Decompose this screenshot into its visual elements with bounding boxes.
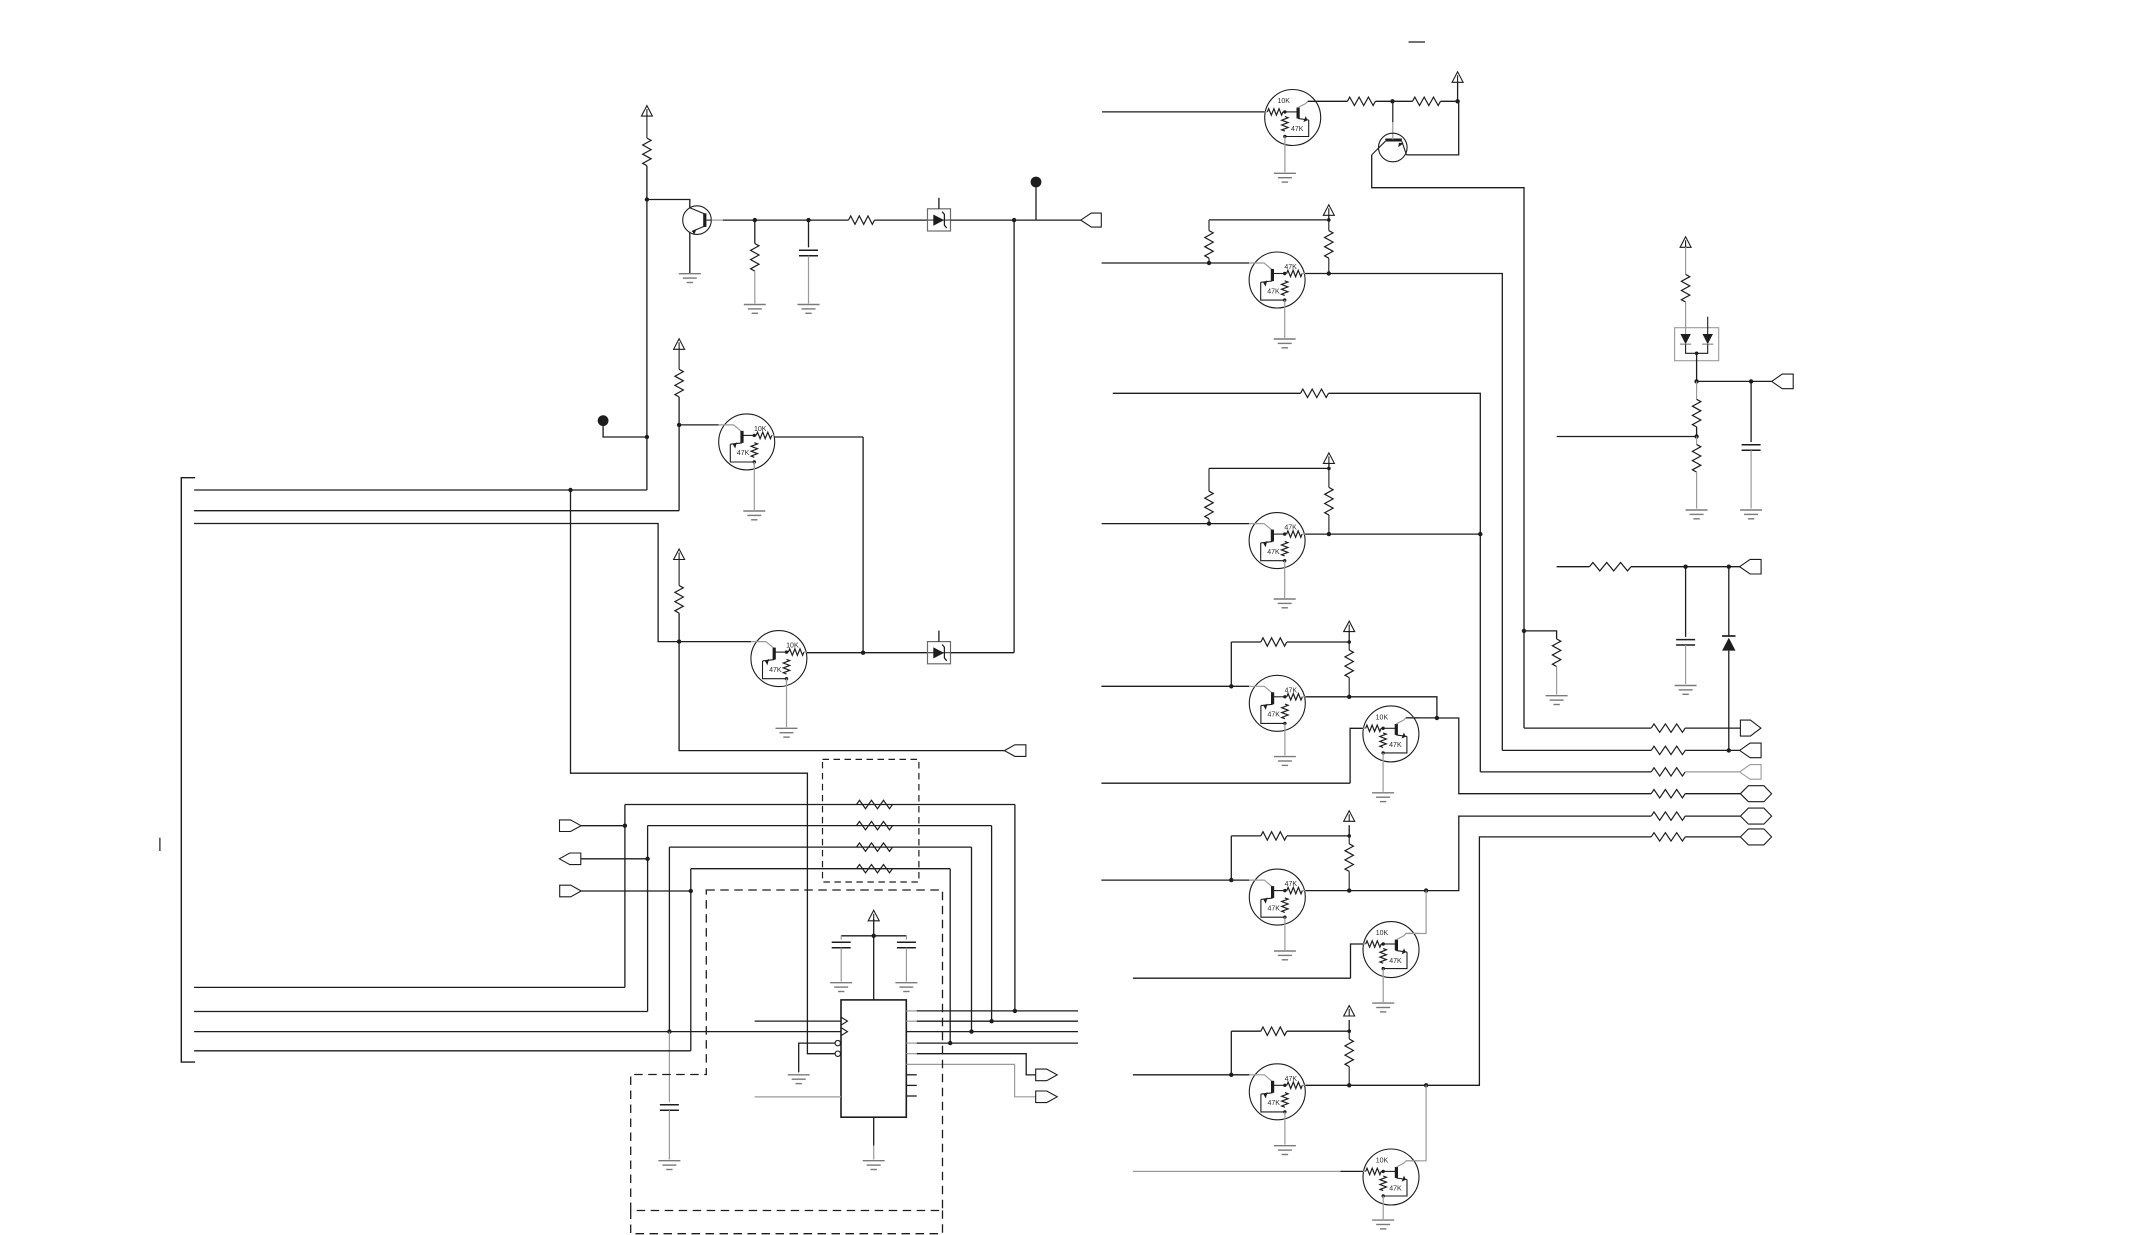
- capacitor C3: [832, 941, 851, 943]
- wire R5 to node: [678, 613, 680, 642]
- IC U1: [841, 1000, 906, 1117]
- oscillator module dashed outline: [631, 890, 943, 1211]
- digital transistor Q8 (pre-biased, 47K/47K): [1249, 513, 1305, 569]
- digital transistor Q12 (pre-biased, 10K/47K): [1363, 922, 1419, 978]
- node Q7 output pull-up: [1327, 271, 1331, 275]
- ground Q10: [1372, 792, 1394, 794]
- wire VCC7 stem: [1328, 463, 1330, 468]
- svg-text:10K: 10K: [754, 426, 767, 433]
- capacitor C2: [660, 1104, 679, 1106]
- wire VCC9 stem: [1348, 825, 1350, 836]
- wire Q7 emitter ground: [1284, 308, 1286, 338]
- wire input line F: [1133, 977, 1351, 979]
- connector pin P12: [1740, 808, 1771, 824]
- resistor R22: [1651, 768, 1685, 776]
- wire C rail right: [1287, 641, 1349, 643]
- svg-text:47K: 47K: [1267, 712, 1280, 719]
- svg-text:47K: 47K: [1285, 881, 1298, 888]
- power symbol VCC1: [641, 106, 652, 117]
- resistor R11: [1208, 468, 1210, 491]
- wire input line H: [1133, 1170, 1341, 1172]
- node C1 branch: [806, 218, 810, 222]
- resistor R1: [646, 115, 648, 139]
- wire R29 to P15: [1631, 566, 1740, 568]
- connector pin P10: [1740, 765, 1762, 780]
- power symbol VCC8: [1344, 621, 1355, 632]
- wire row2: [1502, 749, 1651, 751]
- wire R4 to node and line2 corner: [678, 397, 680, 511]
- node diode D2 anode: [1727, 748, 1731, 752]
- resistor RP3: [857, 843, 893, 851]
- wire C3 to ground: [840, 948, 842, 982]
- diode D1a: [1680, 334, 1690, 344]
- ground C1: [798, 304, 820, 306]
- wire C5 lead: [1750, 381, 1752, 442]
- digital transistor Q4 (pre-biased, 10K/47K): [751, 631, 807, 687]
- wire input line G: [1133, 1074, 1249, 1076]
- wire resonator rail: [841, 935, 906, 937]
- digital transistor Q7 (pre-biased, 47K/47K): [1249, 252, 1305, 308]
- wire bus line2 from bracket: [194, 510, 679, 512]
- node output vertical branch: [1012, 218, 1016, 222]
- node G rail: [1347, 1029, 1351, 1033]
- node connector P5 junction: [689, 889, 693, 893]
- wire E riser: [1230, 836, 1232, 880]
- wire lineB vertical V2: [647, 826, 649, 1012]
- wire VCC4 to node: [873, 919, 875, 936]
- wire IC pin5 to P6: [906, 1053, 916, 1055]
- wire G rail left: [1231, 1030, 1261, 1032]
- wire D1 to divider node: [1696, 353, 1698, 381]
- ground R28: [1686, 509, 1708, 511]
- wire bus line1 from bracket: [194, 489, 647, 491]
- svg-text:10K: 10K: [786, 643, 799, 650]
- power symbol VCC11: [1680, 237, 1691, 248]
- wire node to Q3 collector: [679, 424, 719, 426]
- wire output net vertical to VR2 line: [1013, 220, 1015, 653]
- wire Q6 emitter to VCC: [1407, 101, 1459, 155]
- IC inverted pin bubble1: [835, 1040, 840, 1045]
- power symbol VCC6: [1323, 205, 1334, 216]
- node connector P4 junction: [645, 857, 649, 861]
- node QD collector: [1435, 716, 1439, 720]
- node R2 branch: [753, 218, 757, 222]
- connector pin P9: [1740, 743, 1762, 758]
- node Q9 output pull-up: [1347, 695, 1351, 699]
- wire Q11 output to row5 feeder: [1305, 816, 1651, 891]
- resistor R18: [1261, 1027, 1287, 1035]
- wire IC pin line4: [906, 1042, 916, 1044]
- wire row3 to P10: [1685, 771, 1740, 773]
- svg-text:10K: 10K: [1376, 714, 1389, 721]
- capacitor C5: [1742, 444, 1761, 446]
- wire line1 branch to IC reset pin: [571, 490, 836, 1054]
- wire P4 to V2: [581, 858, 648, 860]
- resistor R8: [1552, 639, 1560, 667]
- bus bracket: [181, 478, 195, 1062]
- wire VCC rail B: [1209, 467, 1329, 469]
- wire Q11 emitter ground: [1284, 925, 1286, 950]
- resistor R7: [1413, 97, 1441, 105]
- IC pin stub1: [906, 1074, 916, 1076]
- wire IC pin line2: [906, 1020, 916, 1022]
- wire R7 to VCC node: [1441, 100, 1458, 102]
- transistor Q6 (PNP): [1372, 133, 1407, 162]
- svg-text:10K: 10K: [1277, 98, 1290, 105]
- wire branch to Q12 collector: [1406, 891, 1426, 934]
- wire TP2 to line1 vertical: [603, 426, 647, 437]
- node Q11 output pull-up: [1347, 888, 1351, 892]
- wire VR1 to output node: [951, 219, 1081, 221]
- wire input line A: [1102, 262, 1250, 264]
- wire row1: [1524, 727, 1651, 729]
- transistor Q1: [683, 206, 712, 235]
- wire lineD vertical V4: [690, 869, 692, 1051]
- connector pin P8: [1740, 720, 1761, 736]
- wire D riser: [1350, 728, 1363, 783]
- wire D2 anode to row2: [1728, 651, 1730, 751]
- wire Q12 emitter ground: [1382, 978, 1384, 1003]
- connector pin P13: [1740, 829, 1771, 845]
- svg-text:47K: 47K: [737, 450, 750, 457]
- resistor R15: [1348, 642, 1350, 650]
- node C input: [1229, 684, 1233, 688]
- wire bus lineA: [194, 986, 625, 988]
- node RP1 to pin line1: [1013, 1009, 1017, 1013]
- wire Q10 collector link: [1406, 717, 1437, 719]
- wire row1 to P8: [1685, 727, 1740, 729]
- wire Q13 output to row6 feeder: [1305, 837, 1651, 1085]
- top dash mark: [1409, 41, 1426, 43]
- wire Q14 emitter ground: [1382, 1205, 1384, 1219]
- wire to Q1 collector: [647, 200, 690, 208]
- wire C5 to ground: [1750, 450, 1752, 508]
- resistor R20: [1651, 724, 1685, 732]
- wire VCC rail to IC top: [873, 936, 875, 1000]
- resistor R14: [1261, 638, 1287, 646]
- ground C5: [1740, 509, 1762, 511]
- wire RP1 vertical to IC pin line: [1014, 805, 1016, 1011]
- wire bus lineB: [194, 1011, 647, 1013]
- wire input line E: [1101, 879, 1249, 881]
- wire IC pin input: [755, 1020, 841, 1022]
- wire row4 to P11: [1685, 793, 1740, 795]
- wire VCC5 stem: [1457, 82, 1459, 102]
- svg-text:10K: 10K: [1376, 930, 1389, 937]
- resistor R25: [1651, 833, 1685, 841]
- node T2 collector pull-up: [677, 639, 681, 643]
- resistor RP2: [857, 821, 893, 829]
- wire net393 to row3 feeder: [1329, 393, 1481, 772]
- power symbol VCC9: [1344, 811, 1355, 822]
- connector pin P3: [560, 820, 582, 832]
- wire Q3 emitter to ground: [753, 462, 755, 510]
- svg-text:47K: 47K: [1389, 742, 1402, 749]
- wire node to Q4 collector: [679, 641, 751, 643]
- wire lineC vertical V3: [668, 847, 670, 1032]
- wire TP1 stem: [1035, 187, 1037, 220]
- resistor RP4: [857, 865, 893, 873]
- ground Q12: [1372, 1002, 1394, 1004]
- resistor R17: [1348, 836, 1350, 844]
- wire Q13 emitter ground: [1284, 1120, 1286, 1145]
- dual diode D1 package: [1675, 328, 1719, 361]
- wire P5 to V4: [581, 890, 691, 892]
- wire C rail left: [1231, 641, 1261, 643]
- wire lineA vertical V1: [624, 805, 626, 988]
- wire input line B: [1102, 523, 1250, 525]
- resistor R24: [1651, 812, 1685, 820]
- wire Q10 emitter ground: [1382, 762, 1384, 792]
- node C rail: [1347, 640, 1351, 644]
- node QF collector branch: [1424, 888, 1428, 892]
- wire Q6 base: [1392, 101, 1394, 122]
- ground Q11: [1274, 950, 1296, 952]
- wire Q1 base output line: [712, 219, 723, 221]
- oscillator module dashed bottom strip: [631, 1211, 943, 1234]
- node A pull-up: [1207, 261, 1211, 265]
- ground R8: [1546, 695, 1568, 697]
- ground Q5: [1274, 172, 1296, 174]
- wire bus lineC: [194, 1031, 669, 1033]
- wire IC lower left pin: [755, 1096, 841, 1098]
- power symbol VCC3: [674, 549, 685, 560]
- ground C3: [830, 982, 852, 984]
- digital transistor Q5 (pre-biased, 10K/47K): [1265, 90, 1321, 146]
- node RP4 to pin line4: [948, 1041, 952, 1045]
- wire E rail left: [1231, 835, 1261, 837]
- svg-text:47K: 47K: [1389, 958, 1402, 965]
- wire row3 to pack: [669, 846, 971, 848]
- node TP2 junction: [645, 435, 649, 439]
- resistor R9: [1208, 220, 1210, 231]
- IC U1 clock pin marks: [841, 1017, 848, 1025]
- wire input line D: [1101, 782, 1350, 784]
- wire R26 to D1: [1685, 302, 1687, 334]
- ground Q9: [1274, 756, 1296, 758]
- ground Q14: [1372, 1219, 1394, 1221]
- digital transistor Q3 (pre-biased, 10K/47K): [719, 414, 775, 470]
- wire net393: [1113, 392, 1301, 394]
- wire node to R8: [1524, 631, 1557, 639]
- resistor R27: [1692, 399, 1700, 427]
- node divider top: [1694, 379, 1698, 383]
- wire input line C: [1101, 685, 1249, 687]
- wire net566: [1557, 566, 1590, 568]
- wire node to P14: [1697, 380, 1772, 382]
- wire R2 to ground: [754, 220, 756, 243]
- wire Q3 output vertical down: [862, 437, 864, 653]
- resistor R6: [1347, 97, 1375, 105]
- wire row6 to P13: [1685, 836, 1740, 838]
- node B pull-up: [1207, 521, 1211, 525]
- connector pin P5: [560, 885, 582, 897]
- IC inverted pin bubble2: [835, 1051, 840, 1056]
- wire R27 to node: [1696, 427, 1698, 437]
- wire IC bottom to ground: [873, 1117, 875, 1145]
- ground Q8: [1274, 598, 1296, 600]
- diode D2: [1722, 635, 1735, 637]
- node VCC5: [1455, 99, 1459, 103]
- svg-text:47K: 47K: [1284, 264, 1297, 271]
- surge absorber VR1: [928, 209, 951, 231]
- wire R8 to ground: [1556, 667, 1558, 695]
- wire divider to R27: [1696, 381, 1698, 399]
- resistor RP1: [857, 800, 893, 808]
- ground Q4: [776, 727, 798, 729]
- wire Q3 output to vertical: [775, 436, 863, 438]
- digital transistor Q11 (pre-biased, 47K/47K): [1249, 869, 1305, 925]
- resistor R26: [1681, 274, 1689, 302]
- surge absorber VR2: [928, 642, 951, 664]
- svg-text:47K: 47K: [1389, 1185, 1402, 1192]
- node base branch Q1: [645, 197, 649, 201]
- node Q8 output pull-up: [1327, 532, 1331, 536]
- wire V3 to C2: [668, 1032, 670, 1103]
- wire C1 lower lead: [808, 256, 810, 304]
- node D2 branch: [1727, 565, 1731, 569]
- digital transistor Q14 (pre-biased, 10K/47K): [1363, 1149, 1419, 1205]
- wire D1b cathode up: [1707, 317, 1709, 334]
- connector pin P2: [1004, 745, 1026, 757]
- node line1 branch down: [568, 488, 572, 492]
- wire C4 top lead: [905, 936, 907, 940]
- svg-text:47K: 47K: [1267, 288, 1280, 295]
- resistor R23: [1651, 790, 1685, 798]
- resistor R29: [1589, 563, 1631, 571]
- page tick mark: [159, 838, 161, 851]
- wire C3 top lead: [840, 936, 842, 940]
- node rail B right: [1327, 467, 1331, 471]
- test point TP2: [598, 415, 609, 426]
- wire row2 to pack: [648, 825, 992, 827]
- IC pin stub3: [906, 1095, 916, 1097]
- wire C riser: [1230, 642, 1232, 686]
- capacitor C1: [799, 249, 818, 251]
- capacitor C6: [1676, 639, 1695, 641]
- wire C1 upper lead: [808, 220, 810, 247]
- wire Q5 collector to R6: [1308, 100, 1348, 102]
- node R8 branch: [1522, 629, 1526, 633]
- resistor R16: [1261, 832, 1287, 840]
- wire IC pin line3: [906, 1031, 1078, 1033]
- digital transistor Q13 (pre-biased, 47K/47K): [1249, 1064, 1305, 1120]
- ground Q1: [679, 273, 701, 275]
- power symbol VCC2: [674, 339, 685, 350]
- wire VCC rail A: [1209, 219, 1329, 221]
- node rail A right: [1327, 218, 1331, 222]
- digital transistor Q10 (pre-biased, 10K/47K): [1363, 706, 1419, 762]
- wire C2 to ground: [668, 1110, 670, 1159]
- wire R1 to line1 vertical: [646, 166, 648, 490]
- wire row4 to pack: [691, 868, 950, 870]
- test point TP1: [1031, 177, 1042, 188]
- wire node to row4 feeder: [1437, 718, 1651, 794]
- wire P3 to V1: [581, 825, 625, 827]
- wire F riser: [1351, 944, 1364, 978]
- node C6 branch: [1683, 565, 1687, 569]
- svg-text:47K: 47K: [1267, 1100, 1280, 1107]
- wire divider input: [1557, 436, 1697, 438]
- svg-text:47K: 47K: [769, 667, 782, 674]
- power symbol VCC4: [868, 910, 879, 921]
- resistor pack dashed outline: [823, 759, 919, 882]
- svg-text:10K: 10K: [1376, 1158, 1389, 1165]
- node divider mid: [1694, 434, 1698, 438]
- wire RP3 vertical to IC pin line: [971, 847, 973, 1032]
- wire IC pin line1: [906, 1010, 916, 1012]
- svg-text:47K: 47K: [1284, 525, 1297, 532]
- wire bus lineD: [194, 1050, 691, 1052]
- wire row1 to pack: [625, 804, 1015, 806]
- ground IC pin: [788, 1074, 810, 1076]
- wire Q1 emitter to ground: [689, 232, 691, 273]
- power symbol VCC5: [1452, 72, 1463, 83]
- svg-text:47K: 47K: [1291, 126, 1304, 133]
- resistor R19: [1348, 1031, 1350, 1039]
- node E rail: [1347, 834, 1351, 838]
- wire Q9 output to QD collector node: [1305, 697, 1437, 718]
- node RP3 to pin line3: [969, 1029, 973, 1033]
- wire Q7 output to row2 feeder: [1305, 274, 1502, 751]
- node QH collector branch: [1424, 1083, 1428, 1087]
- ground IC: [863, 1160, 885, 1162]
- node resonator center: [872, 934, 876, 938]
- svg-text:47K: 47K: [1267, 549, 1280, 556]
- wire Q5 emitter to ground: [1284, 146, 1286, 173]
- wire bus line3 from bracket: [194, 524, 679, 642]
- wire bubble1 to ground: [799, 1043, 835, 1072]
- svg-text:47K: 47K: [1285, 687, 1298, 694]
- resistor R5: [678, 558, 680, 585]
- wire Q6 collector to row1 feeder: [1372, 155, 1524, 728]
- ground C4: [895, 982, 917, 984]
- resistor R13: [1301, 389, 1329, 397]
- wire RP2 vertical to IC pin line: [991, 826, 993, 1022]
- digital transistor Q9 (pre-biased, 47K/47K): [1249, 675, 1305, 731]
- wire D2 cathode lead: [1728, 567, 1730, 636]
- wire G rail right: [1287, 1030, 1349, 1032]
- wire Q8 emitter ground: [1284, 569, 1286, 598]
- wire R2 lower lead: [754, 271, 756, 303]
- ground Q7: [1274, 338, 1296, 340]
- node Q13 output pull-up: [1347, 1083, 1351, 1087]
- connector pin P1: [1081, 213, 1102, 227]
- wire branch to Q14 collector: [1406, 1085, 1426, 1161]
- wire VCC8 stem: [1348, 631, 1350, 642]
- diode D1b: [1703, 334, 1713, 344]
- connector pin P7: [1036, 1091, 1058, 1103]
- power symbol VCC7: [1323, 453, 1334, 464]
- wire VR2 to output vertical: [951, 652, 1014, 654]
- node E input: [1229, 878, 1233, 882]
- resistor R2: [751, 244, 759, 272]
- connector pin P6: [1036, 1069, 1058, 1081]
- wire IC pin6 to P7: [906, 1064, 1035, 1096]
- power symbol VCC10: [1344, 1006, 1355, 1017]
- wire R6 to node: [1375, 100, 1412, 102]
- node Q3/Q4 output join: [861, 651, 865, 655]
- node Q8 output to vertical: [1478, 532, 1482, 536]
- connector pin P4: [559, 853, 581, 865]
- ground Q13: [1274, 1145, 1296, 1147]
- wire D1 common anode: [1686, 344, 1708, 353]
- wire VCC11 to R26: [1685, 247, 1687, 274]
- node connector P3 junction: [623, 824, 627, 828]
- node G input: [1229, 1073, 1233, 1077]
- node C5 branch: [1749, 379, 1753, 383]
- wire VCC10 stem: [1348, 1020, 1350, 1031]
